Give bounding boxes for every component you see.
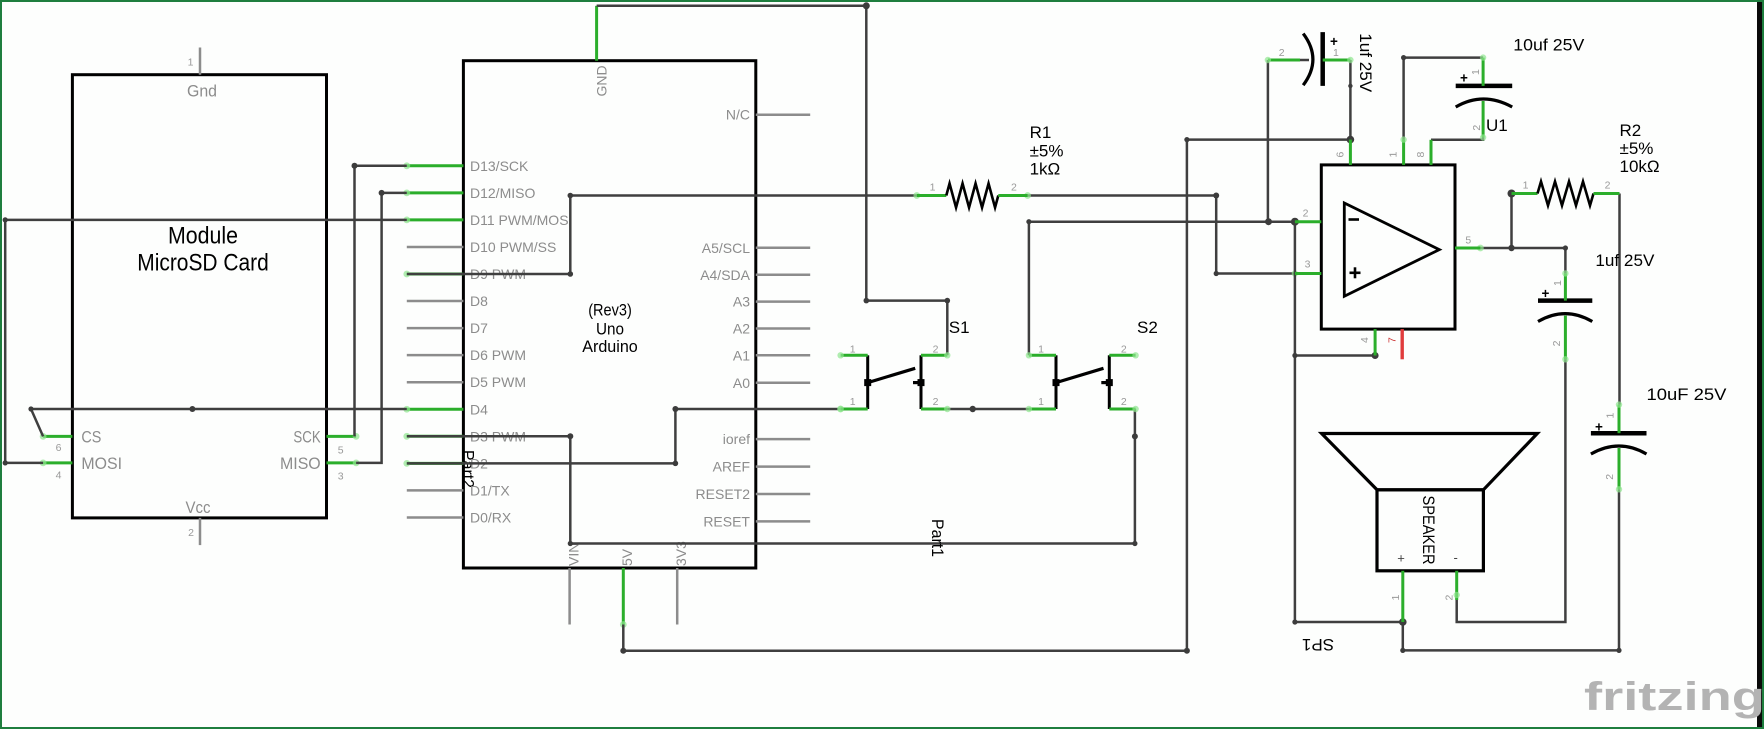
op-amp U1 pin 6 V+ bbox=[1335, 140, 1351, 165]
svg-text:D10 PWM/SS: D10 PWM/SS bbox=[470, 239, 556, 255]
pin D4 (Arduino) bbox=[403, 401, 488, 417]
svg-text:+: + bbox=[1460, 71, 1468, 86]
svg-text:4: 4 bbox=[1359, 337, 1371, 343]
pin A2 (Arduino) bbox=[733, 321, 810, 337]
svg-text:CS: CS bbox=[81, 428, 101, 447]
svg-text:1: 1 bbox=[930, 182, 936, 194]
pin 5V (Arduino bottom) bbox=[619, 548, 635, 628]
svg-text:A0: A0 bbox=[733, 375, 750, 391]
svg-text:A3: A3 bbox=[733, 294, 750, 310]
svg-text:1: 1 bbox=[1470, 69, 1482, 75]
pin AREF (Arduino) bbox=[713, 459, 811, 475]
pin D12/MISO (Arduino) bbox=[403, 185, 535, 201]
svg-text:2: 2 bbox=[188, 527, 194, 539]
pin D0/RX (Arduino) bbox=[407, 509, 512, 525]
switch S1 bbox=[837, 318, 969, 412]
pin A0 (Arduino) bbox=[733, 375, 810, 391]
pin D2 (Arduino) bbox=[403, 455, 488, 471]
wire capacitor C3 pin 2 to speaker pin 2 bbox=[1457, 359, 1566, 622]
speaker SP1 pin 2 bbox=[1444, 571, 1460, 601]
svg-text:10uf 25V: 10uf 25V bbox=[1513, 35, 1585, 54]
pin GND (Arduino top) bbox=[594, 6, 610, 97]
svg-text:2: 2 bbox=[1121, 396, 1127, 408]
svg-text:ioref: ioref bbox=[723, 431, 750, 447]
svg-text:A5/SCL: A5/SCL bbox=[702, 240, 750, 256]
svg-text:MISO: MISO bbox=[280, 454, 321, 473]
pin 5 SCK (MicroSD) bbox=[293, 428, 359, 457]
svg-text:1: 1 bbox=[1388, 152, 1400, 158]
svg-text:1: 1 bbox=[1038, 396, 1044, 408]
speaker SP1 pin 1 bbox=[1390, 571, 1403, 622]
svg-text:Part1: Part1 bbox=[928, 519, 947, 557]
svg-text:D11 PWM/MOSI: D11 PWM/MOSI bbox=[470, 212, 572, 228]
svg-text:1: 1 bbox=[1390, 595, 1402, 601]
svg-text:2: 2 bbox=[1121, 343, 1127, 355]
wire S2 pin 1 to op-amp -in bbox=[1026, 219, 1295, 355]
svg-text:D6 PWM: D6 PWM bbox=[470, 347, 526, 363]
wire D9 to R1 pin 1 bbox=[407, 192, 920, 277]
svg-text:5: 5 bbox=[1465, 235, 1471, 247]
svg-text:2: 2 bbox=[933, 396, 939, 408]
svg-text:2: 2 bbox=[1011, 182, 1017, 194]
svg-text:SPEAKER: SPEAKER bbox=[1419, 496, 1438, 565]
svg-text:1uf 25V: 1uf 25V bbox=[1356, 33, 1375, 93]
module Part3 MicroSD Card bbox=[72, 75, 326, 518]
svg-text:3: 3 bbox=[338, 471, 344, 483]
svg-text:+: + bbox=[1397, 551, 1405, 566]
svg-text:D13/SCK: D13/SCK bbox=[470, 158, 529, 174]
svg-text:MicroSD Card: MicroSD Card bbox=[137, 250, 269, 277]
wire op-amp pin 1 to capacitor C2 pin 1 bbox=[1401, 55, 1483, 140]
pin 3V3 (Arduino bottom) bbox=[673, 541, 689, 625]
resistor R1 1k bbox=[917, 182, 1028, 208]
svg-text:MOSI: MOSI bbox=[81, 454, 122, 473]
svg-text:10uF 25V: 10uF 25V bbox=[1647, 385, 1728, 404]
capacitor C2 10uf 25V (above U1) bbox=[1456, 35, 1585, 140]
pin 3 MISO (MicroSD) bbox=[280, 454, 360, 483]
pin N/C (Arduino) bbox=[726, 107, 810, 123]
label R2 value bbox=[1620, 121, 1660, 176]
pin D1/TX (Arduino) bbox=[407, 482, 511, 498]
pin D11 PWM/MOSI (Arduino) bbox=[403, 212, 572, 228]
pin D6 PWM (Arduino) bbox=[407, 347, 526, 363]
pin 2 Vcc (MicroSD) bbox=[186, 498, 211, 545]
svg-text:Module: Module bbox=[168, 222, 238, 249]
op-amp U1 pin 1 bbox=[1388, 136, 1407, 164]
svg-text:AREF: AREF bbox=[713, 459, 750, 475]
svg-text:fritzing: fritzing bbox=[1584, 675, 1764, 719]
svg-text:10kΩ: 10kΩ bbox=[1620, 157, 1660, 176]
wire R1 pin 2 to op-amp +in bbox=[1024, 192, 1298, 277]
pin A4/SDA (Arduino) bbox=[700, 267, 810, 283]
pin A3 (Arduino) bbox=[733, 294, 810, 310]
op-amp U1 pin 5 output bbox=[1455, 235, 1480, 249]
svg-text:Uno: Uno bbox=[596, 320, 624, 339]
pin D9 PWM (Arduino) bbox=[403, 266, 526, 282]
pin D3 PWM (Arduino) bbox=[403, 428, 526, 444]
svg-text:D5 PWM: D5 PWM bbox=[470, 374, 526, 390]
pin D7 (Arduino) bbox=[407, 320, 488, 336]
svg-text:+: + bbox=[1330, 34, 1338, 49]
svg-text:D8: D8 bbox=[470, 293, 488, 309]
pin ioref (Arduino) bbox=[723, 431, 810, 447]
capacitor C3 1uf 25V (below output) bbox=[1538, 251, 1655, 362]
svg-text:1: 1 bbox=[1523, 180, 1529, 192]
svg-text:D7: D7 bbox=[470, 320, 488, 336]
op-amp U1 pin 7 unconnected bbox=[1386, 329, 1402, 359]
svg-text:3: 3 bbox=[1305, 259, 1311, 271]
wire capacitor C4 pin 2 down to speaker pin 1 junction bbox=[1400, 489, 1621, 653]
svg-text:Vcc: Vcc bbox=[186, 498, 211, 517]
wire D13 to SCK bbox=[352, 163, 407, 437]
svg-text:Arduino: Arduino bbox=[582, 337, 638, 356]
speaker SP1 body bbox=[1322, 434, 1538, 571]
svg-text:(Rev3): (Rev3) bbox=[588, 301, 632, 320]
svg-text:D0/RX: D0/RX bbox=[470, 509, 512, 525]
switch S2 bbox=[1026, 318, 1158, 412]
wire capacitor C1 pin 2 down to -in net bbox=[1267, 60, 1270, 222]
svg-text:Gnd: Gnd bbox=[187, 82, 217, 101]
svg-text:D1/TX: D1/TX bbox=[470, 482, 510, 498]
svg-text:1: 1 bbox=[1605, 413, 1617, 419]
pin 6 CS (MicroSD) bbox=[40, 428, 102, 454]
pin VIN (Arduino bottom) bbox=[566, 543, 582, 625]
capacitor C1 1uf 25V (left of 5V junction) bbox=[1265, 32, 1375, 93]
svg-text:S2: S2 bbox=[1137, 318, 1158, 337]
svg-text:2: 2 bbox=[1471, 125, 1483, 131]
pin D13/SCK (Arduino) bbox=[403, 158, 529, 174]
pin 1 Gnd (MicroSD) bbox=[187, 48, 217, 101]
op-amp U1 pin 2 -in bbox=[1295, 208, 1321, 222]
svg-text:8: 8 bbox=[1415, 152, 1427, 158]
svg-text:2: 2 bbox=[1279, 47, 1285, 59]
wire CS to D4 bbox=[28, 406, 406, 436]
pin D10 PWM/SS (Arduino) bbox=[407, 239, 557, 255]
op-amp U1 pin 3 +in bbox=[1295, 259, 1321, 274]
svg-text:R1: R1 bbox=[1030, 123, 1052, 142]
svg-text:2: 2 bbox=[1444, 595, 1456, 601]
svg-text:1: 1 bbox=[850, 396, 856, 408]
op-amp U1 pin 8 bbox=[1415, 140, 1431, 165]
svg-text:S1: S1 bbox=[949, 318, 970, 337]
wire op-amp pin 5 output to R2 pin 1 and C3 pin 1 bbox=[1477, 190, 1568, 274]
label R1 value bbox=[1030, 123, 1064, 178]
svg-text:4: 4 bbox=[56, 470, 62, 482]
wire D2 to S1 pin 1 bbox=[407, 406, 844, 467]
IC Part2 Arduino Uno (Rev3) bbox=[459, 61, 756, 568]
svg-text:D4: D4 bbox=[470, 401, 488, 417]
wire D3 to S2 pin 2 (Part1 net) bbox=[407, 409, 1138, 546]
svg-text:5V: 5V bbox=[619, 548, 635, 566]
wire op-amp pin 8 to capacitor C2 pin 2 bbox=[1431, 136, 1483, 140]
svg-text:1uf 25V: 1uf 25V bbox=[1595, 251, 1655, 270]
svg-text:2: 2 bbox=[1551, 340, 1563, 346]
svg-text:1: 1 bbox=[850, 343, 856, 355]
pin A1 (Arduino) bbox=[733, 347, 810, 363]
wire D11 to MOSI bbox=[3, 217, 407, 465]
svg-text:1kΩ: 1kΩ bbox=[1030, 159, 1061, 178]
svg-text:6: 6 bbox=[1335, 152, 1347, 158]
svg-text:-: - bbox=[1454, 550, 1458, 565]
pin RESET2 (Arduino) bbox=[696, 486, 811, 502]
wire -in net down to pin 4 and speaker pin 1 bbox=[1265, 218, 1403, 625]
svg-text:GND: GND bbox=[594, 65, 610, 96]
wire S1 pin 2 to S2 pin 1 (bottom row) bbox=[947, 406, 1029, 412]
svg-text:5: 5 bbox=[338, 445, 344, 457]
svg-text:R2: R2 bbox=[1620, 121, 1642, 140]
pin 4 MOSI (MicroSD) bbox=[40, 454, 122, 482]
svg-text:N/C: N/C bbox=[726, 107, 750, 123]
svg-text:2: 2 bbox=[1605, 180, 1611, 192]
svg-text:7: 7 bbox=[1386, 337, 1398, 343]
svg-text:A2: A2 bbox=[733, 321, 750, 337]
junction op-amp pin 6 / 5V rail / C1 pin 1 bbox=[1347, 136, 1355, 144]
op-amp U1 pin 4 V- bbox=[1359, 329, 1375, 355]
wire 5V rail to op-amp pin 6 bbox=[620, 137, 1350, 654]
capacitor C4 10uF 25V (right column) bbox=[1591, 385, 1727, 492]
svg-text:SCK: SCK bbox=[293, 428, 321, 447]
svg-text:2: 2 bbox=[1303, 208, 1309, 220]
svg-text:±5%: ±5% bbox=[1620, 139, 1654, 158]
svg-text:1: 1 bbox=[188, 57, 194, 69]
svg-text:RESET2: RESET2 bbox=[696, 486, 751, 502]
svg-text:+: + bbox=[1542, 286, 1550, 301]
svg-text:A4/SDA: A4/SDA bbox=[700, 267, 750, 283]
wire capacitor C1 pin 1 down to pin 6 junction bbox=[1348, 60, 1352, 140]
svg-text:1: 1 bbox=[1552, 280, 1564, 286]
pin A5/SCL (Arduino) bbox=[702, 240, 810, 256]
svg-text:SP1: SP1 bbox=[1302, 635, 1334, 654]
svg-text:+: + bbox=[1595, 420, 1603, 435]
svg-text:D12/MISO: D12/MISO bbox=[470, 185, 535, 201]
wire GND to S1 pin 2 bbox=[597, 2, 951, 355]
svg-text:U1: U1 bbox=[1486, 116, 1508, 135]
svg-text:RESET: RESET bbox=[703, 513, 750, 529]
svg-text:2: 2 bbox=[1604, 474, 1616, 480]
junction speaker pin 1 bbox=[1399, 618, 1407, 626]
wire R2 pin 2 down to capacitor C4 pin 1 bbox=[1618, 194, 1621, 405]
svg-text:A1: A1 bbox=[733, 347, 750, 363]
svg-text:VIN: VIN bbox=[566, 543, 582, 566]
svg-text:6: 6 bbox=[56, 442, 62, 454]
wire D12 to MISO bbox=[356, 190, 407, 463]
pin RESET (Arduino) bbox=[703, 513, 810, 529]
svg-text:2: 2 bbox=[933, 343, 939, 355]
resistor R2 10k bbox=[1512, 180, 1620, 206]
svg-text:1: 1 bbox=[1038, 343, 1044, 355]
op-amp U1 body bbox=[1321, 116, 1507, 329]
pin D5 PWM (Arduino) bbox=[407, 374, 526, 390]
svg-text:±5%: ±5% bbox=[1030, 141, 1064, 160]
pin D8 (Arduino) bbox=[407, 293, 488, 309]
